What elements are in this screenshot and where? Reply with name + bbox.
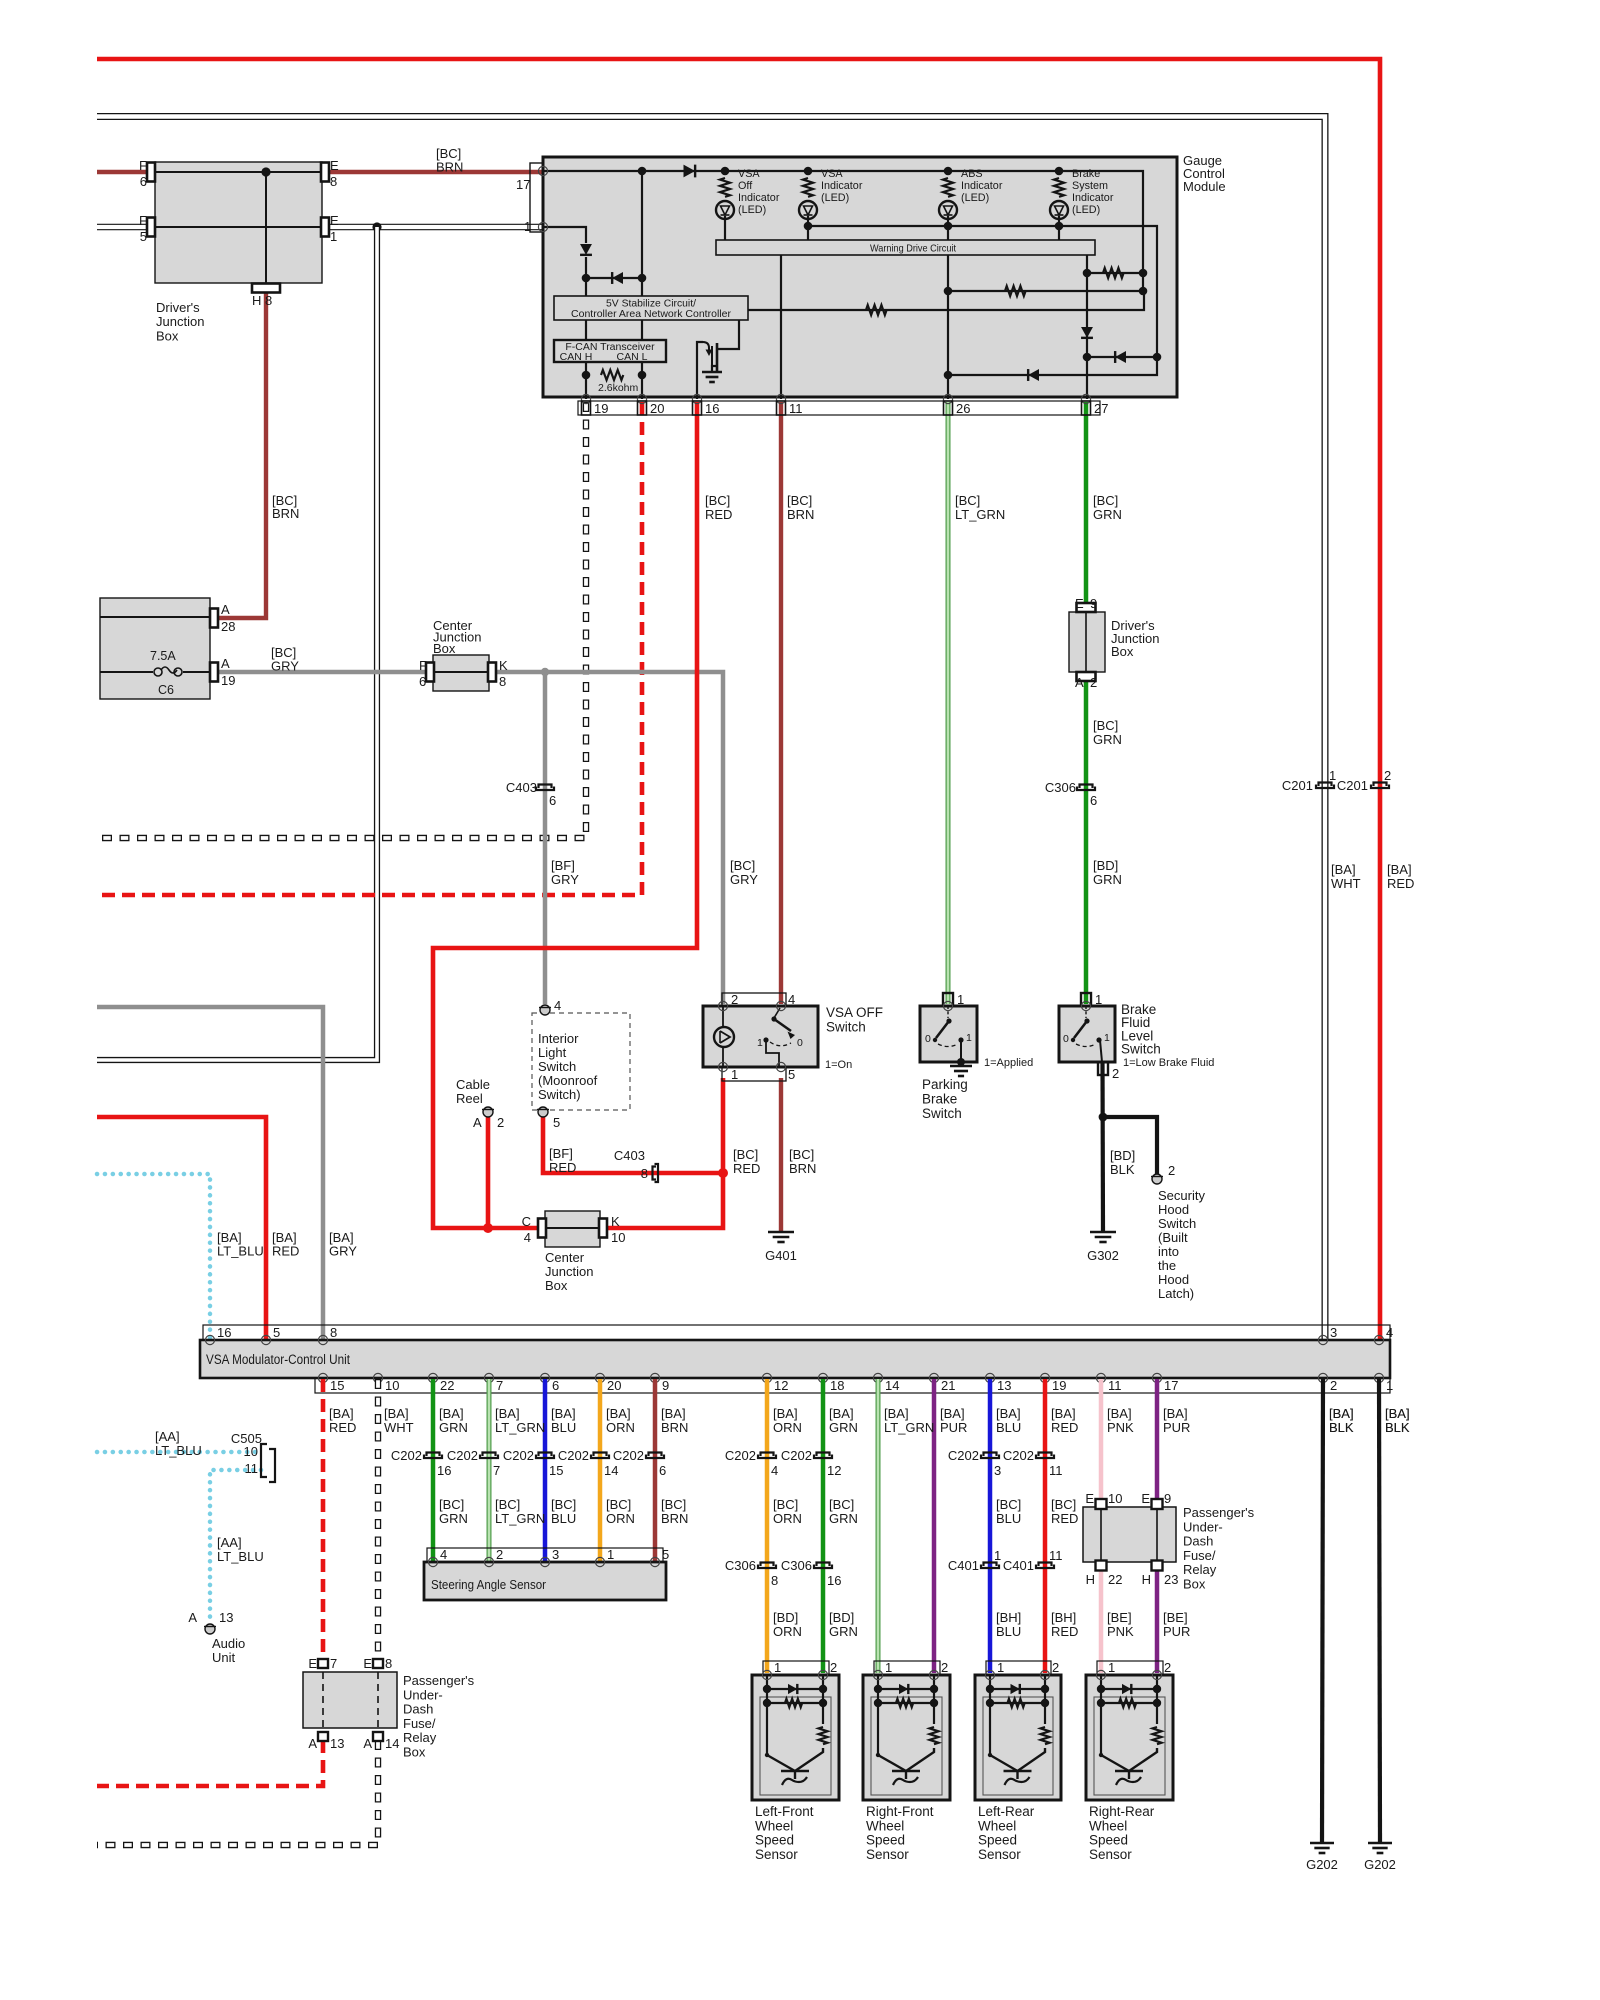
wire [BC] GRN gauge pin 27 to DJB E9 xyxy=(1084,402,1089,604)
svg-text:[BA]: [BA] xyxy=(1385,1406,1410,1421)
label F5 letter xyxy=(139,213,147,228)
interior light switch dashed box xyxy=(532,1013,630,1110)
svg-text:PUR: PUR xyxy=(1163,1624,1190,1639)
label VSA Off Indicator (LED) xyxy=(738,168,780,216)
svg-text:8: 8 xyxy=(385,1656,392,1671)
svg-text:BLU: BLU xyxy=(551,1420,576,1435)
svg-text:[BC]: [BC] xyxy=(1093,718,1118,733)
connector C306 pin 16 xyxy=(814,1563,832,1569)
svg-text:10: 10 xyxy=(611,1230,625,1245)
svg-text:Under-: Under- xyxy=(403,1687,443,1702)
svg-text:Wheel: Wheel xyxy=(978,1818,1016,1833)
svg-text:LT_GRN: LT_GRN xyxy=(955,507,1005,522)
wire [BA] WHT dashed below A14 xyxy=(97,1740,378,1845)
label left-front wheel speed sensor pin 2 xyxy=(830,1660,837,1675)
svg-text:Sensor: Sensor xyxy=(978,1847,1021,1862)
svg-text:9: 9 xyxy=(1164,1491,1171,1506)
label C202 16 xyxy=(391,1448,422,1463)
wire WHT dashed from gauge pin 19 down/left xyxy=(97,402,586,838)
svg-text:[BC]: [BC] xyxy=(733,1147,758,1162)
label C306 pin6 xyxy=(1090,793,1097,808)
wire [BA] BLK pin 1 to G202 xyxy=(1379,1379,1380,1843)
svg-text:Warning Drive Circuit: Warning Drive Circuit xyxy=(870,243,956,255)
label 4 cjb2 xyxy=(524,1230,531,1245)
label A 14b xyxy=(363,1736,372,1751)
node red junction cable reel xyxy=(483,1223,493,1233)
svg-text:1: 1 xyxy=(524,219,531,234)
label [BA] BLK at 1323 xyxy=(1329,1406,1354,1435)
svg-text:Wheel: Wheel xyxy=(1089,1818,1127,1833)
pin bracket 27 xyxy=(1082,401,1091,415)
svg-text:Fuse/: Fuse/ xyxy=(403,1716,436,1731)
svg-text:[BA]: [BA] xyxy=(884,1406,909,1421)
svg-text:11: 11 xyxy=(789,401,803,416)
svg-text:[BC]: [BC] xyxy=(996,1497,1021,1512)
passenger's under-dash fuse/relay box right xyxy=(1083,1507,1176,1562)
svg-text:16: 16 xyxy=(217,1325,231,1340)
label interior light switch xyxy=(538,1031,598,1102)
label vsa bottom pin 12 xyxy=(774,1378,788,1393)
svg-text:K: K xyxy=(611,1214,620,1229)
label C202 15 xyxy=(503,1448,534,1463)
label [BA] BLK g202 a xyxy=(1329,1406,1354,1435)
wire [BD] BLK branch to security hood switch xyxy=(1103,1117,1157,1174)
label pin 2 vsa xyxy=(731,992,738,1007)
transistor Q1 mosfet at pin 16 xyxy=(697,320,739,399)
label [BA] BLU at 545 xyxy=(551,1406,576,1435)
label K cjb2 xyxy=(611,1214,620,1229)
label right-front wheel speed sensor xyxy=(866,1804,934,1862)
label pin 1 vsa xyxy=(731,1067,738,1082)
left-rear wheel speed sensor inner frame xyxy=(983,1697,1053,1795)
label brake fluid level switch xyxy=(1121,1002,1161,1057)
svg-text:Box: Box xyxy=(433,641,456,656)
svg-text:9: 9 xyxy=(1090,596,1097,611)
svg-text:Latch): Latch) xyxy=(1158,1286,1194,1301)
label 0 bfs xyxy=(1063,1033,1069,1045)
right-front wheel speed sensor body xyxy=(863,1675,950,1800)
left-rear wheel speed sensor body xyxy=(975,1675,1061,1800)
label [BA] RED mid xyxy=(1387,862,1414,891)
wire CAN H vertical xyxy=(585,320,587,340)
label pin 1 xyxy=(524,219,531,234)
F-CAN transceiver box xyxy=(554,340,666,362)
label 6 xyxy=(140,174,147,189)
svg-text:C401: C401 xyxy=(948,1558,979,1573)
steering angle sensor top connector strip xyxy=(427,1548,663,1562)
svg-text:PNK: PNK xyxy=(1107,1624,1134,1639)
svg-text:[BC]: [BC] xyxy=(730,858,755,873)
wire [BA] RED power feed top/right border xyxy=(97,59,1380,1341)
label [BA] LT_GRN at 878 xyxy=(884,1406,934,1435)
label [BA] BLK at 1379 xyxy=(1385,1406,1410,1435)
svg-text:F: F xyxy=(139,158,147,173)
svg-text:[BA]: [BA] xyxy=(661,1406,686,1421)
label [BF] GRY mid xyxy=(551,858,579,887)
label C306 pin 16 xyxy=(827,1573,841,1588)
svg-text:Left-Rear: Left-Rear xyxy=(978,1804,1035,1819)
svg-text:RED: RED xyxy=(549,1160,576,1175)
label E 9 xyxy=(1075,596,1084,611)
label C403 pin6 xyxy=(549,793,556,808)
svg-text:A: A xyxy=(1075,675,1084,690)
connector C306 pin 8 xyxy=(758,1563,776,1569)
VSA modulator pin circles xyxy=(205,1335,1383,1382)
label C202 pin 12b xyxy=(827,1463,841,1478)
label C cjb2 xyxy=(522,1214,531,1229)
label C202 pin 15 xyxy=(549,1463,563,1478)
pin bracket 19 xyxy=(582,401,591,415)
label C201 b xyxy=(1337,778,1368,793)
label 2 djb xyxy=(1090,675,1097,690)
wire [AA] LT_BLU from C505 pin 11 to audio unit xyxy=(210,1470,261,1624)
label 5v stabilize xyxy=(606,298,696,310)
svg-text:Light: Light xyxy=(538,1045,567,1060)
label [BC] GRN at 823 xyxy=(829,1497,858,1526)
svg-text:Sensor: Sensor xyxy=(1089,1847,1132,1862)
label 8 pudb xyxy=(385,1656,392,1671)
label passenger box left xyxy=(403,1673,475,1760)
label pin 17 xyxy=(516,177,530,192)
svg-text:1: 1 xyxy=(966,1032,972,1044)
wire [BF] RED cable reel drop xyxy=(486,1117,491,1228)
wire [BA] LT_BLU left feed to VSA pin 16 xyxy=(97,1174,210,1341)
label right-rear wheel speed sensor pin 2 xyxy=(1164,1660,1171,1675)
label C403 pin8 xyxy=(641,1166,648,1181)
svg-text:RED: RED xyxy=(1051,1624,1078,1639)
svg-text:Indicator: Indicator xyxy=(961,180,1003,192)
label security hood switch xyxy=(1158,1188,1205,1301)
svg-text:Speed: Speed xyxy=(1089,1833,1128,1848)
wire [BC] BRN gauge pin 11 to VSA OFF pin 4 xyxy=(779,402,783,1004)
svg-text:8: 8 xyxy=(499,674,506,689)
svg-text:GRN: GRN xyxy=(829,1511,858,1526)
svg-text:14: 14 xyxy=(885,1378,899,1393)
label 2 security xyxy=(1168,1163,1175,1178)
left-front wheel speed sensor inner frame xyxy=(760,1697,831,1795)
label vsa bottom pin 11 xyxy=(1108,1378,1122,1393)
svg-text:4: 4 xyxy=(440,1547,447,1562)
node junction on WHT wire at x=377 xyxy=(372,222,381,231)
label [BF] RED xyxy=(549,1146,576,1175)
svg-text:RED: RED xyxy=(1051,1511,1078,1526)
svg-text:2: 2 xyxy=(1112,1066,1119,1081)
label center junction box top xyxy=(433,618,481,656)
svg-text:BLU: BLU xyxy=(551,1511,576,1526)
label 1=Low Brake Fluid xyxy=(1123,1057,1214,1069)
svg-text:BLK: BLK xyxy=(1110,1162,1135,1177)
svg-text:23: 23 xyxy=(1164,1572,1178,1587)
label CAN H xyxy=(560,351,593,363)
gauge module pin circles xyxy=(538,166,1090,403)
svg-text:Junction: Junction xyxy=(156,314,204,329)
svg-text:6: 6 xyxy=(549,793,556,808)
svg-text:0: 0 xyxy=(797,1037,803,1049)
terminal pin 4 of interior light switch xyxy=(539,1005,551,1015)
svg-text:Brake: Brake xyxy=(1072,168,1100,180)
svg-text:A: A xyxy=(473,1115,482,1130)
left-front wheel speed sensor body xyxy=(752,1675,839,1800)
svg-text:the: the xyxy=(1158,1258,1176,1273)
label 9 djb xyxy=(1090,596,1097,611)
right-rear wheel speed sensor body xyxy=(1086,1675,1173,1800)
svg-text:[BA]: [BA] xyxy=(773,1406,798,1421)
right-front wheel speed sensor inner frame xyxy=(871,1697,942,1795)
svg-text:[BA]: [BA] xyxy=(996,1406,1021,1421)
svg-text:C202: C202 xyxy=(948,1448,979,1463)
connector E7 xyxy=(318,1659,328,1668)
left-rear wheel speed sensor internal circuit xyxy=(986,1675,1050,1785)
label [BA] BRN at 655 xyxy=(661,1406,688,1435)
label C403 xyxy=(506,780,537,795)
label sas pin 1 xyxy=(607,1547,614,1562)
svg-text:28: 28 xyxy=(221,619,235,634)
resistor+LED ABS Indicator xyxy=(939,178,957,240)
label 2 cable xyxy=(497,1115,504,1130)
node top rail junction x=725 xyxy=(721,167,730,176)
label [BC] BRN low xyxy=(789,1147,816,1176)
label H 22 xyxy=(1086,1572,1095,1587)
svg-text:F: F xyxy=(139,213,147,228)
svg-text:11: 11 xyxy=(1108,1378,1122,1393)
brake fluid pin circle xyxy=(1081,1001,1090,1010)
svg-text:PNK: PNK xyxy=(1107,1420,1134,1435)
label 23 pudbr xyxy=(1164,1572,1178,1587)
label [BA] RED left xyxy=(272,1230,299,1259)
VSA Modulator-Control Unit body xyxy=(200,1340,1390,1378)
svg-text:1=Low Brake Fluid: 1=Low Brake Fluid xyxy=(1123,1057,1214,1069)
connector C202 pin 14 xyxy=(591,1453,609,1459)
svg-text:1: 1 xyxy=(330,229,337,244)
wire [BA]/[BC] GRN pin 22 to steering angle sensor xyxy=(431,1379,436,1561)
svg-text:[AA]: [AA] xyxy=(155,1429,180,1444)
label [BC] GRY xyxy=(271,645,299,674)
svg-text:10: 10 xyxy=(1108,1491,1122,1506)
svg-text:Controller Area Network Contro: Controller Area Network Controller xyxy=(571,308,731,320)
label [BC] ORN at 600 xyxy=(606,1497,635,1526)
svg-text:Box: Box xyxy=(545,1278,568,1293)
label A 2 xyxy=(1075,675,1084,690)
svg-text:[BC]: [BC] xyxy=(1093,493,1118,508)
svg-text:Under-: Under- xyxy=(1183,1519,1223,1534)
label 0 inside vsa xyxy=(797,1037,803,1049)
label C202 pin 16 xyxy=(437,1463,451,1478)
ground G202 right xyxy=(1368,1843,1392,1853)
svg-text:9: 9 xyxy=(662,1378,669,1393)
svg-text:GRN: GRN xyxy=(829,1624,858,1639)
label vsa bottom pin 21 xyxy=(941,1378,955,1393)
svg-text:CAN L: CAN L xyxy=(617,351,648,363)
svg-text:[BA]: [BA] xyxy=(551,1406,576,1421)
svg-text:Parking: Parking xyxy=(922,1077,968,1092)
label warning drive circuit xyxy=(870,243,956,255)
svg-text:A: A xyxy=(221,656,230,671)
gauge module bottom connector strip xyxy=(578,401,1100,415)
label 10 cjb2 xyxy=(611,1230,625,1245)
label right-front wheel speed sensor pin 1 xyxy=(885,1660,892,1675)
left-front wheel speed sensor internal circuit xyxy=(763,1675,828,1785)
label left-rear wheel speed sensor pin 2 xyxy=(1052,1660,1059,1675)
svg-text:Hood: Hood xyxy=(1158,1202,1189,1217)
label [BE] PNK at 1101 xyxy=(1107,1610,1134,1639)
label right-front wheel speed sensor pin 2 xyxy=(941,1660,948,1675)
svg-text:C202: C202 xyxy=(1003,1448,1034,1463)
svg-text:[BC]: [BC] xyxy=(773,1497,798,1512)
svg-text:[BA]: [BA] xyxy=(495,1406,520,1421)
label vsa bottom pin 20 xyxy=(607,1378,621,1393)
label [BC] GRN below djb xyxy=(1093,718,1122,747)
connector A28 xyxy=(210,609,218,628)
label [BC] RED low xyxy=(733,1147,760,1176)
label sas pin 5 xyxy=(662,1547,669,1562)
svg-text:[BD]: [BD] xyxy=(1093,858,1118,873)
label C202 14 xyxy=(558,1448,589,1463)
svg-text:G302: G302 xyxy=(1087,1248,1119,1263)
label C401 1 xyxy=(948,1558,979,1573)
VSA OFF switch bottom connector strip xyxy=(722,1067,786,1081)
left-rear wheel speed sensor connector strip xyxy=(986,1661,1051,1675)
diode down on pin27 vertical xyxy=(1081,327,1093,338)
wire [BC] LT_GRN gauge pin 26 to parking brake switch xyxy=(946,402,951,1004)
svg-text:RED: RED xyxy=(733,1161,760,1176)
VSA OFF switch top connector strip xyxy=(722,993,786,1006)
svg-text:VSA Modulator-Control Unit: VSA Modulator-Control Unit xyxy=(206,1352,350,1367)
svg-text:PUR: PUR xyxy=(1163,1420,1190,1435)
label C202 3b xyxy=(948,1448,979,1463)
label vsa top pin 5 xyxy=(273,1325,280,1340)
svg-text:E: E xyxy=(1141,1491,1150,1506)
svg-text:ORN: ORN xyxy=(773,1420,802,1435)
svg-text:A: A xyxy=(308,1736,317,1751)
svg-text:RED: RED xyxy=(272,1244,299,1259)
label C401 pin 1 xyxy=(994,1548,1001,1563)
label vsa bottom pin 17 xyxy=(1164,1378,1178,1393)
svg-text:27: 27 xyxy=(1094,401,1108,416)
svg-text:A: A xyxy=(188,1610,197,1625)
label C403 b xyxy=(614,1148,645,1163)
svg-text:1: 1 xyxy=(1108,1660,1115,1675)
label [BC] BRN top xyxy=(436,146,463,175)
label C202 pin 6 xyxy=(659,1463,666,1478)
label vsa bottom pin 6 xyxy=(552,1378,559,1393)
wire [BA]-[BD] GRN pin 18 to LF sensor xyxy=(821,1379,826,1673)
svg-text:[BC]: [BC] xyxy=(705,493,730,508)
svg-text:1: 1 xyxy=(731,1067,738,1082)
svg-text:CAN H: CAN H xyxy=(560,351,593,363)
svg-text:Fuse/: Fuse/ xyxy=(1183,1548,1216,1563)
svg-text:Switch: Switch xyxy=(826,1020,866,1035)
label audio unit xyxy=(212,1636,245,1665)
svg-text:LT_BLU: LT_BLU xyxy=(155,1443,202,1458)
svg-text:19: 19 xyxy=(1052,1378,1066,1393)
label C202 4b xyxy=(725,1448,756,1463)
svg-text:Unit: Unit xyxy=(212,1650,236,1665)
svg-text:C: C xyxy=(522,1214,531,1229)
wire WHT branch down then left xyxy=(97,227,377,1060)
svg-text:into: into xyxy=(1158,1244,1179,1259)
svg-text:[BA]: [BA] xyxy=(439,1406,464,1421)
label 1 pbs xyxy=(957,992,964,1007)
label 1=Applied xyxy=(984,1057,1033,1069)
switch contact parking brake xyxy=(933,1006,965,1066)
label C401 11 xyxy=(1003,1558,1034,1573)
label vsa bottom pin 1 xyxy=(1386,1378,1393,1393)
svg-text:LT_GRN: LT_GRN xyxy=(495,1420,545,1435)
right-front wheel speed sensor connector strip xyxy=(874,1661,940,1675)
svg-text:Wheel: Wheel xyxy=(866,1818,904,1833)
connector C403 pin 8 xyxy=(653,1164,659,1182)
label C201 pin1 xyxy=(1329,768,1336,783)
connector K10 of CJB xyxy=(599,1219,607,1238)
label can controller xyxy=(571,308,731,320)
label A 13b xyxy=(308,1736,317,1751)
svg-text:[AA]: [AA] xyxy=(217,1535,242,1550)
label F6 xyxy=(139,158,147,173)
switch contact brake fluid xyxy=(1071,1006,1102,1062)
label [BA] ORN at 600 xyxy=(606,1406,635,1435)
label pin 5 ils xyxy=(553,1115,560,1130)
svg-text:[BA]: [BA] xyxy=(1107,1406,1132,1421)
connector C403 pin 6 xyxy=(536,785,554,791)
wire [BC]/[BD] GRN DJB A2 to brake fluid switch xyxy=(1084,680,1089,1004)
wire [BA]/[BC] BLU pin 6 xyxy=(543,1379,548,1561)
svg-text:Switch: Switch xyxy=(538,1059,576,1074)
wire [BA]/[BC] ORN pin 20 xyxy=(598,1379,603,1561)
label C202 7 xyxy=(447,1448,478,1463)
svg-text:26: 26 xyxy=(956,401,970,416)
connector C202 pin 6 xyxy=(646,1453,664,1459)
resistor between 1087 and 1143 xyxy=(1087,268,1147,278)
label driver's junction box right xyxy=(1111,618,1159,659)
svg-text:2: 2 xyxy=(496,1547,503,1562)
svg-text:8: 8 xyxy=(330,174,337,189)
label C201 pin2 xyxy=(1384,768,1391,783)
svg-text:17: 17 xyxy=(1164,1378,1178,1393)
svg-text:(LED): (LED) xyxy=(1072,204,1100,216)
label 6 cjb xyxy=(419,674,426,689)
wire [BA] WHT hollow top/right border xyxy=(97,117,1325,1342)
label [BA] LT_GRN at 489 xyxy=(495,1406,545,1435)
wire [BD] BLK brake fluid pin2 to G302 xyxy=(1100,1062,1105,1232)
connector C401 pin 1 xyxy=(981,1563,999,1569)
svg-text:Indicator: Indicator xyxy=(821,180,863,192)
label [AA] LT_BLU a xyxy=(155,1429,202,1458)
svg-text:BRN: BRN xyxy=(272,506,299,521)
svg-text:7: 7 xyxy=(493,1463,500,1478)
svg-text:C306: C306 xyxy=(725,1558,756,1573)
node red junction VSA OFF pin1/BF RED tee xyxy=(718,1168,728,1178)
wire [BC] GRY from A19 to VSA OFF pin 2 xyxy=(214,672,723,1004)
svg-text:1: 1 xyxy=(757,1037,763,1049)
label [BA] PNK at 1101 xyxy=(1107,1406,1134,1435)
label [BE] PUR at 1157 xyxy=(1163,1610,1190,1639)
svg-text:Left-Front: Left-Front xyxy=(755,1804,814,1819)
svg-text:[BC]: [BC] xyxy=(787,493,812,508)
parking brake switch body xyxy=(920,1006,977,1062)
svg-text:H: H xyxy=(1142,1572,1151,1587)
label vsa bottom pin 2 xyxy=(1330,1378,1337,1393)
svg-text:Speed: Speed xyxy=(866,1833,905,1848)
label 14 pudb xyxy=(385,1736,399,1751)
connector C202 pin 12 xyxy=(814,1453,832,1459)
resistor rail y=310 from 5V box xyxy=(748,291,1144,315)
label C401 pin 11 xyxy=(1049,1548,1063,1563)
svg-text:2: 2 xyxy=(941,1660,948,1675)
svg-text:3: 3 xyxy=(552,1547,559,1562)
svg-text:0: 0 xyxy=(925,1033,931,1045)
wire CAN H to pin 19 xyxy=(582,362,591,399)
label pin 27 xyxy=(1094,401,1108,416)
